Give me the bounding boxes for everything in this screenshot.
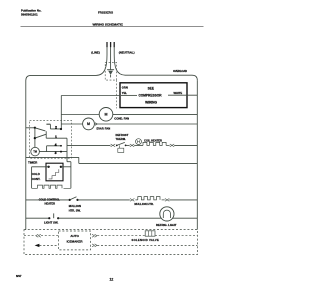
cabinet dash line below ground box [115, 80, 117, 108]
terminal 4 pin [60, 145, 62, 147]
wire compressor row inside box [121, 94, 137, 96]
left bus (line side) [25, 81, 27, 230]
svg-text:AUTO: AUTO [70, 234, 79, 238]
timer contact A bar [46, 123, 50, 125]
svg-text:HEATER: HEATER [45, 202, 56, 206]
wire compressor row right (white) [168, 94, 197, 96]
wire mullion switch to connector [78, 199, 130, 201]
icemaker circuit dashed enclosure [24, 230, 197, 255]
ground symbol stem [110, 75, 112, 77]
svg-text:COND. FAN: COND. FAN [114, 117, 129, 121]
svg-text:FRS23ZRG: FRS23ZRG [98, 10, 114, 14]
svg-text:M: M [87, 122, 90, 126]
cold control terminal left [47, 166, 49, 168]
mullion switch contact [76, 199, 78, 201]
icemaker row1 dashed wire to box [41, 235, 59, 237]
wire defrost row to right bus [174, 144, 197, 146]
cold control terminal right [60, 166, 62, 168]
power cord plug blade GROUND [110, 42, 112, 47]
wire cold control drop [67, 157, 71, 188]
icemaker row1 dashed wire to right edge [155, 235, 197, 237]
wire ground prong [110, 47, 112, 69]
cold control heater coil [32, 185, 71, 188]
svg-text:HTR. SW.: HTR. SW. [69, 209, 81, 213]
svg-text:GRN: GRN [122, 86, 128, 90]
water solenoid valve [145, 231, 155, 236]
defrost thermostat contact left [116, 145, 118, 147]
svg-text:1: 1 [55, 135, 57, 139]
connector icemaker row1 left [36, 234, 41, 237]
svg-text:DEFROST: DEFROST [116, 133, 129, 137]
ground dashed enclosure [105, 62, 116, 80]
icemaker row2 stub [39, 244, 58, 246]
light bulb filament [163, 210, 170, 218]
wire timer motor to neutral path [39, 151, 67, 153]
refrigerator light bulb [160, 207, 174, 221]
wire condenser fan row [61, 113, 197, 115]
wire connector to coil [134, 144, 143, 146]
svg-text:5995361201: 5995361201 [21, 12, 38, 16]
svg-text:MULLION HTR.: MULLION HTR. [134, 202, 154, 206]
svg-text:(NEUTRAL): (NEUTRAL) [119, 51, 135, 55]
connector pair mullion row [130, 199, 134, 202]
svg-text:REFRIG. LIGHT: REFRIG. LIGHT [156, 223, 177, 227]
thermal cutout circle [136, 139, 142, 145]
terminal 2 pin [60, 128, 62, 130]
light switch pivot [48, 217, 50, 219]
wire mullion row [26, 199, 70, 201]
mullion switch pivot [69, 199, 71, 201]
defrost timer dashed box [30, 120, 72, 158]
header rule [21, 26, 204, 28]
wire terminal 4 stub [47, 146, 61, 152]
icemaker row1 dashed wire to valve [97, 235, 145, 237]
wire bus to timer pivot [26, 127, 35, 129]
timer contact B [45, 131, 47, 138]
cold control box [46, 163, 63, 181]
svg-text:TIMER: TIMER [28, 160, 38, 164]
svg-text:WIRING: WIRING [145, 100, 157, 104]
connector pair after thermostat [130, 144, 134, 147]
wire evaporator fan row [61, 123, 197, 125]
wire terminal 1 row [46, 137, 67, 139]
svg-text:6/97: 6/97 [16, 274, 22, 278]
connector after mullion heater [165, 199, 169, 202]
icemaker row1 dashed wire left [24, 235, 36, 237]
svg-text:MULLION: MULLION [69, 204, 81, 208]
defrost coil heater element [143, 142, 170, 145]
evaporator fan motor [83, 118, 95, 130]
right bus (neutral side) [196, 80, 198, 229]
svg-text:YEL: YEL [122, 91, 128, 95]
timer pivot 2 [34, 137, 36, 139]
connector after defrost coil [170, 144, 174, 147]
wire defrost heater row [67, 144, 110, 146]
svg-text:M: M [105, 113, 108, 117]
svg-text:COMPRESSOR: COMPRESSOR [138, 94, 162, 98]
solenoid valve hatch [148, 231, 151, 236]
svg-text:SEE: SEE [148, 87, 154, 91]
wire mullion row to right bus [169, 199, 197, 201]
light switch blade [53, 213, 55, 218]
icemaker ground arrow [35, 244, 40, 247]
mullion switch blade [70, 197, 77, 200]
svg-text:WIRING SCHEMATIC: WIRING SCHEMATIC [93, 23, 124, 27]
thermal cutout glyph [137, 140, 139, 143]
svg-text:12: 12 [110, 277, 114, 281]
svg-text:3: 3 [55, 151, 57, 155]
auto icemaker dashed box [59, 231, 91, 250]
wire line prong to left rail [26, 47, 107, 81]
wire cold control left link [32, 167, 49, 189]
terminal 3 pin [60, 151, 62, 153]
svg-text:(LINE): (LINE) [91, 51, 100, 55]
wire light row [26, 217, 50, 219]
wire terminal 1 drop [66, 138, 68, 157]
ground symbol bar [107, 69, 114, 71]
svg-text:CONT.: CONT. [32, 177, 41, 181]
power cord plug blade LINE [106, 42, 108, 47]
svg-text:SOLENOID VALVE: SOLENOID VALVE [132, 238, 160, 242]
compressor wiring box [120, 83, 187, 108]
svg-text:TM: TM [33, 151, 36, 154]
mullion heater coil [135, 197, 164, 200]
cold control bellows [49, 169, 59, 179]
timer motor [31, 147, 40, 156]
ground symbol arrow [108, 71, 113, 75]
timer switch blade 2 [35, 134, 46, 138]
wire light row to right bus [58, 217, 197, 219]
timer switch blade 1 [35, 128, 46, 131]
svg-text:COIL HEATER: COIL HEATER [144, 139, 162, 143]
svg-text:COLD CONTROL: COLD CONTROL [39, 197, 60, 201]
wire therm to connector [126, 144, 130, 146]
svg-text:THERM.: THERM. [116, 137, 127, 141]
defrost thermostat bulb [118, 145, 124, 152]
defrost thermostat contact right [125, 145, 127, 147]
wire cold control right link [61, 166, 71, 168]
svg-text:OVERLOAD: OVERLOAD [173, 69, 187, 73]
wire neutral prong to right rail [114, 47, 197, 80]
wire compressor row left [61, 95, 120, 97]
icemaker row2 dashed wire to right edge [97, 244, 197, 246]
power cord plug blade NEUTRAL [113, 42, 115, 47]
connector on evap fan row [95, 123, 97, 126]
svg-text:COLD: COLD [32, 172, 40, 176]
svg-text:ICEMAKER: ICEMAKER [67, 239, 84, 243]
wire bus line under timer [26, 157, 198, 163]
defrost thermostat blade [117, 142, 125, 145]
light switch contact [57, 217, 59, 219]
svg-text:WHITE: WHITE [174, 91, 183, 95]
svg-text:EVAP. FAN: EVAP. FAN [97, 126, 111, 130]
timer pivot 1 [34, 127, 36, 129]
connector pair defrost row [111, 144, 116, 147]
connector icemaker row1 right [92, 234, 97, 237]
condenser fan motor [99, 108, 113, 122]
wire contact A to terminal 2 [50, 124, 60, 129]
svg-text:2: 2 [55, 126, 57, 130]
timer terminal 2 vertical feed [60, 96, 62, 130]
svg-text:4: 4 [55, 143, 57, 147]
timer pivot link vertical [34, 128, 36, 148]
connector icemaker row2 right [92, 244, 97, 247]
svg-text:LIGHT SW.: LIGHT SW. [44, 220, 59, 224]
